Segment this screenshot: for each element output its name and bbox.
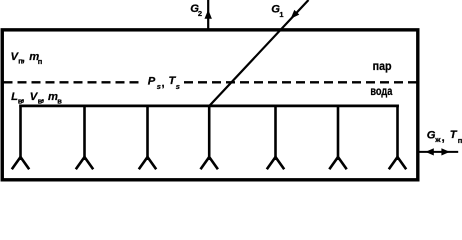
left-pointing arrowhead — [425, 148, 433, 155]
label Gzh, Tp — [427, 129, 462, 145]
sparger nozzle 6 — [329, 105, 346, 170]
svg-text:s: s — [157, 82, 161, 91]
svg-text:пар: пар — [373, 61, 392, 73]
G1 feed water diagonal line — [209, 0, 308, 106]
sparger nozzle 1 — [12, 105, 29, 170]
svg-text:,: , — [442, 132, 445, 144]
svg-text:2: 2 — [198, 9, 202, 18]
sparger nozzle 3 — [139, 105, 156, 170]
saturation level dashed line (left segment) — [4, 81, 144, 83]
manifold header pipe — [19, 105, 399, 108]
sparger nozzle 7 — [389, 105, 406, 170]
svg-text:п: п — [458, 136, 462, 145]
svg-text:T: T — [450, 129, 458, 141]
svg-text:ж: ж — [434, 135, 441, 144]
vessel tank outline — [2, 30, 418, 180]
svg-text:P: P — [148, 76, 156, 88]
saturation level dashed line (right segment) — [184, 81, 417, 83]
G1 arrowhead (down-left) — [291, 10, 300, 19]
svg-text:вода: вода — [370, 86, 392, 98]
G2 steam outlet line — [207, 0, 209, 30]
svg-text:,: , — [162, 78, 165, 90]
label Lv, Vv, mv (water level/volume/mass) — [11, 91, 62, 106]
svg-text:п: п — [38, 57, 43, 66]
sparger nozzle 2 — [76, 105, 93, 170]
G2 arrowhead (up) — [205, 10, 212, 19]
svg-text:1: 1 — [279, 10, 283, 19]
right side bidirectional flow line — [418, 151, 458, 153]
right-pointing arrowhead — [441, 148, 449, 155]
svg-text:,: , — [41, 92, 44, 104]
label Ps, Ts on dashed line — [148, 75, 180, 91]
sparger nozzle 5 — [267, 105, 284, 170]
svg-text:,: , — [21, 92, 24, 104]
svg-text:s: s — [176, 82, 180, 91]
sparger nozzle 4 — [201, 105, 218, 170]
svg-text:в: в — [57, 97, 62, 106]
svg-text:,: , — [22, 53, 25, 65]
label Vp, mp (steam volume/mass) — [11, 51, 43, 66]
